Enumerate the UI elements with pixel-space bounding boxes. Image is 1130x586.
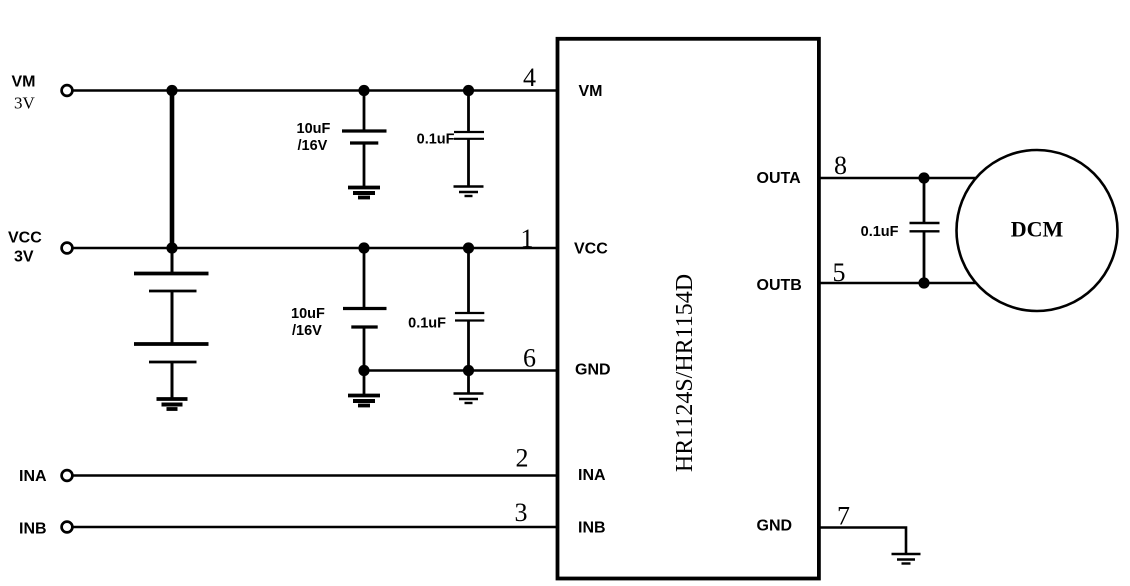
svg-text:0.1uF: 0.1uF <box>417 132 455 148</box>
ground (C3) <box>348 396 380 406</box>
svg-text:OUTB: OUTB <box>757 277 802 294</box>
junction VM/battery branch <box>166 85 177 96</box>
terminal INA <box>62 470 73 481</box>
capacitor C4 0.1uF (VCC rail) <box>455 248 484 393</box>
svg-text:6: 6 <box>523 344 536 373</box>
svg-text:GND: GND <box>757 518 793 535</box>
svg-text:OUTA: OUTA <box>757 170 802 187</box>
junction GND6/C4 <box>463 365 474 376</box>
capacitor C3 10uF/16V (VCC rail) <box>343 248 387 395</box>
ground (C4) <box>454 394 484 404</box>
svg-text:INA: INA <box>578 467 606 484</box>
svg-text:0.1uF: 0.1uF <box>861 224 899 240</box>
wire GND pin6 <box>364 369 559 372</box>
wire VM rail <box>74 89 560 92</box>
junction VCC/battery <box>166 242 177 253</box>
svg-text:VM: VM <box>579 83 603 100</box>
svg-text:10uF: 10uF <box>291 306 325 322</box>
svg-text:3: 3 <box>515 498 528 527</box>
wire INA rail <box>74 474 560 477</box>
svg-text:HR1124S/HR1154D: HR1124S/HR1154D <box>672 274 698 472</box>
capacitor C5 0.1uF (motor) <box>910 178 940 283</box>
ground (C1) <box>348 188 380 198</box>
svg-text:VCC: VCC <box>574 241 608 258</box>
svg-text:/16V: /16V <box>298 138 328 154</box>
svg-text:VM: VM <box>12 74 36 91</box>
svg-text:1: 1 <box>521 224 534 253</box>
terminal VCC <box>62 243 73 254</box>
svg-text:INA: INA <box>19 468 47 485</box>
battery BT1 <box>134 248 209 398</box>
svg-text:0.1uF: 0.1uF <box>408 316 446 332</box>
svg-text:3V: 3V <box>14 94 36 113</box>
IC U1 HR1124S/HR1154D <box>558 39 819 579</box>
svg-text:3V: 3V <box>14 249 34 266</box>
svg-text:INB: INB <box>578 520 606 537</box>
capacitor C1 10uF/16V (VM rail) <box>342 91 387 188</box>
svg-text:DCM: DCM <box>1011 217 1064 242</box>
wire INB rail <box>74 526 560 529</box>
junction OUTA/C5 <box>918 172 929 183</box>
svg-text:GND: GND <box>575 362 611 379</box>
svg-text:/16V: /16V <box>292 323 322 339</box>
terminal INB <box>62 522 73 533</box>
capacitor C2 0.1uF (VM rail) <box>454 91 484 187</box>
svg-text:7: 7 <box>837 502 850 531</box>
svg-text:4: 4 <box>523 63 536 92</box>
svg-text:5: 5 <box>833 258 846 287</box>
junction OUTB/C5 <box>918 277 929 288</box>
ground (pin7) <box>892 554 921 564</box>
svg-text:VCC: VCC <box>8 230 42 247</box>
junction VM/C2 <box>463 85 474 96</box>
junction GND6/C3 <box>358 365 369 376</box>
wire OUTA <box>817 177 980 180</box>
motor DCM <box>957 150 1118 311</box>
svg-text:10uF: 10uF <box>297 121 331 137</box>
wire VM-VCC vertical <box>170 91 175 249</box>
junction VCC/C4 <box>463 242 474 253</box>
junction VCC/C3 <box>358 242 369 253</box>
ground (BT1) <box>157 399 188 409</box>
junction VM/C1 <box>358 85 369 96</box>
wire GND pin7 <box>817 528 906 554</box>
svg-text:2: 2 <box>516 444 529 473</box>
svg-text:INB: INB <box>19 521 47 538</box>
ground (C2) <box>454 187 484 197</box>
wire VCC rail <box>74 247 560 250</box>
terminal VM <box>62 85 73 96</box>
svg-text:8: 8 <box>834 151 847 180</box>
wire OUTB <box>817 282 980 285</box>
